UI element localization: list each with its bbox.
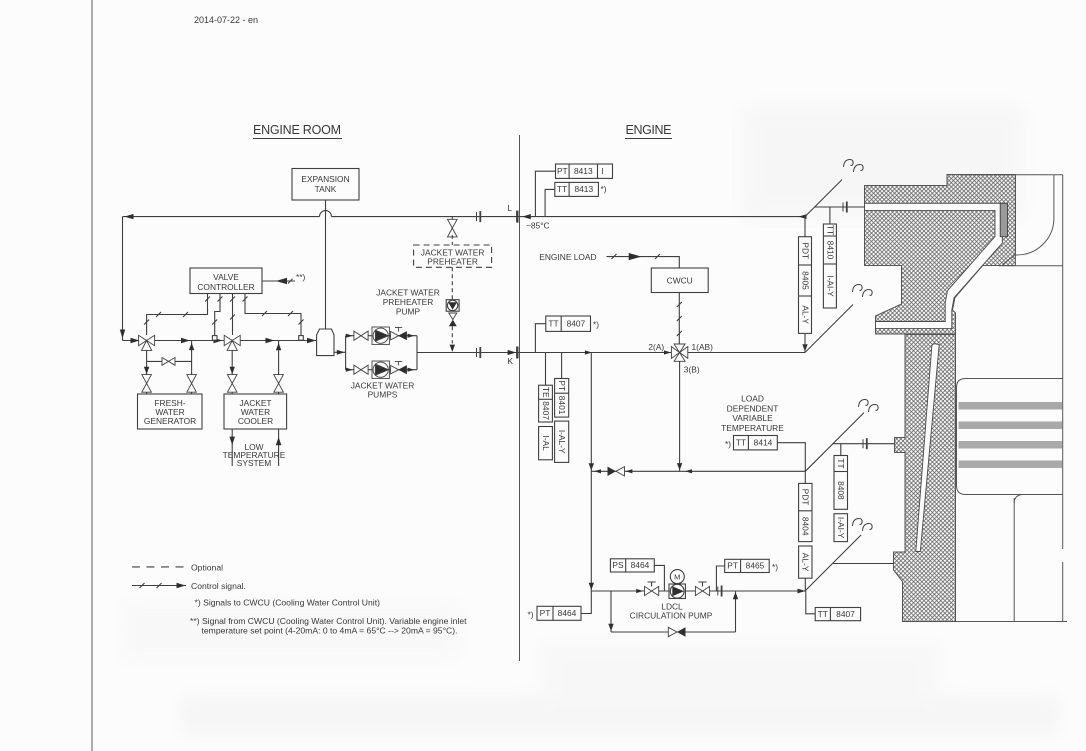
PT8413 instrument lead <box>535 171 555 216</box>
CWCU box <box>651 268 708 293</box>
fresh-water generator box <box>138 394 203 429</box>
liner cooling slot (white) <box>916 344 939 552</box>
faint scan smudges <box>120 105 1060 735</box>
svg-text:Control signal.: Control signal. <box>191 581 246 591</box>
svg-text:PUMP: PUMP <box>396 307 421 317</box>
svg-text:8405: 8405 <box>800 271 810 290</box>
hose squiggle D2 <box>853 284 863 292</box>
svg-text:CWCU: CWCU <box>667 276 693 286</box>
liner outlet pipe <box>833 443 895 445</box>
flow arrow L at wall (pointing left) <box>522 214 531 219</box>
engine cylinder liner column (hatched) <box>894 335 956 622</box>
hose squiggle D1 <box>844 159 854 167</box>
svg-text:PUMPS: PUMPS <box>368 390 398 400</box>
dashed drop preheater to pump <box>451 267 453 299</box>
svg-text:AL-Y: AL-Y <box>801 553 811 572</box>
TT 8408 vertical box <box>834 456 848 542</box>
preheater branch valve on L line <box>451 217 453 222</box>
jw cooler outlet valve <box>274 375 284 393</box>
PT8401 lead <box>561 353 563 379</box>
bypass check valve (white/black) <box>668 627 677 636</box>
svg-text:L: L <box>507 203 512 213</box>
svg-text:TEMPERATURE: TEMPERATURE <box>721 423 784 433</box>
valve controller box <box>190 268 262 294</box>
low temperature system supply line <box>231 429 233 466</box>
TT 8410 vertical box <box>823 224 836 308</box>
svg-text:GENERATOR: GENERATOR <box>144 416 196 426</box>
jw cooler inlet drop <box>231 350 233 394</box>
arrow on riser above tee <box>589 463 594 470</box>
svg-text:*): *) <box>772 562 778 572</box>
svg-text:8404: 8404 <box>801 517 811 536</box>
svg-text:VALVE: VALVE <box>213 272 239 282</box>
cylinder bore fillet arc <box>1015 218 1054 255</box>
preheater pump check valve (down) <box>449 313 457 320</box>
TT 8407 box (engine inlet) <box>546 316 591 331</box>
engine cylinder head block (hatched) <box>865 175 1016 335</box>
motor M <box>670 570 684 584</box>
svg-text:DEPENDENT: DEPENDENT <box>727 403 779 413</box>
flow arrow suction header 2 <box>181 338 190 343</box>
svg-text:8407: 8407 <box>567 319 586 329</box>
svg-text:PDT: PDT <box>801 489 811 506</box>
branch 2 flow arrows <box>346 368 353 372</box>
PDT8405 bottom lead <box>804 333 806 352</box>
jw pump 1 <box>372 327 389 344</box>
svg-text:I-AI-Y: I-AI-Y <box>836 517 846 539</box>
piston ring belt slab (rounded) <box>957 379 1063 495</box>
channel elbow shaded insert <box>1000 203 1007 236</box>
PDT 8404 vertical box <box>799 483 812 578</box>
svg-text:*): *) <box>601 184 607 194</box>
flow arrow into deaeration vessel <box>307 338 316 343</box>
K line engine side continues <box>688 352 805 354</box>
PT 8413 box <box>556 164 613 178</box>
jw pump 1 check valve <box>391 328 407 340</box>
svg-text:SYSTEM: SYSTEM <box>237 458 271 468</box>
pump suction valve with T <box>645 586 659 595</box>
svg-text:*): *) <box>725 439 731 449</box>
pump bypass left riser <box>610 591 612 632</box>
svg-text:Optional: Optional <box>191 562 223 572</box>
hose diagonal D2 (K line to head inlet) <box>805 305 853 353</box>
PT8465 instrument lead <box>716 566 724 591</box>
engine outline right verticals <box>961 174 1063 176</box>
svg-text:1(AB): 1(AB) <box>692 342 714 352</box>
jacket water preheater dashed box <box>414 245 492 267</box>
legend optional dashed sample <box>132 566 185 568</box>
dashed drop to K line <box>451 326 453 343</box>
flow arrow into LDCL outlet junction <box>798 589 806 594</box>
expansion tank box <box>292 169 359 201</box>
svg-text:PT: PT <box>540 608 551 618</box>
mixing line check valve (black/white) <box>608 467 617 476</box>
svg-text:ENGINE ROOM: ENGINE ROOM <box>253 123 341 137</box>
control signal output line with arrow **) <box>262 279 295 284</box>
svg-text:I-AL-Y: I-AL-Y <box>557 430 567 454</box>
fw generator outlet valve <box>187 375 197 393</box>
svg-text:8464: 8464 <box>631 560 650 570</box>
svg-text:PT: PT <box>557 166 568 176</box>
flow arrow K before 3-way valve <box>664 350 671 354</box>
piston ring gray bar 4 <box>959 461 1063 469</box>
svg-text:PT: PT <box>727 561 738 571</box>
union on K line <box>477 347 481 358</box>
line jump over tank drop <box>320 211 332 217</box>
hose squiggle D4 <box>853 518 863 526</box>
hose squiggle D3 <box>859 399 869 407</box>
dashed drop to preheater <box>451 235 453 245</box>
svg-text:TT: TT <box>825 225 835 235</box>
PT 8465 box <box>725 559 770 572</box>
K feed pipe engine room side <box>417 352 805 354</box>
flow arrow left riser down <box>120 330 125 339</box>
low temperature system return line <box>278 429 280 466</box>
union on liner outlet pipe <box>863 438 867 449</box>
hose diagonal D4 (liner inlet) <box>805 535 861 591</box>
svg-text:PS: PS <box>612 560 624 570</box>
TT8407 bottom instrument lead <box>806 591 815 614</box>
arrow into K line <box>450 345 455 352</box>
fw generator inlet valve <box>142 375 152 393</box>
PT 8401 vertical box <box>555 379 569 463</box>
bulkhead mark L <box>516 211 518 223</box>
bypass globe valve <box>162 358 175 366</box>
svg-text:8413: 8413 <box>574 184 593 194</box>
union on head outlet pipe <box>843 202 847 213</box>
fw generator outlet up arrow <box>189 343 194 350</box>
LDCL feed riser (to circulation circuit) <box>590 353 592 592</box>
signal tap square D <box>299 336 304 341</box>
3B outlet drop <box>679 361 681 471</box>
svg-text:CIRCULATION PUMP: CIRCULATION PUMP <box>630 610 713 620</box>
engine room / engine separator wall line <box>519 135 521 661</box>
svg-text:PREHEATER: PREHEATER <box>383 297 434 307</box>
legend control signal sample <box>132 583 186 588</box>
3-way control valve (2A/1AB/3B) <box>671 344 687 361</box>
svg-text:ENGINE: ENGINE <box>626 123 672 137</box>
PT 8464 box <box>537 606 581 620</box>
PDT8404 top lead <box>804 471 806 483</box>
hose diagonal D1 (L line to head) <box>805 180 842 217</box>
flow arrow K at wall (pointing right) <box>508 350 517 355</box>
LDCL pump suction line <box>591 590 805 592</box>
svg-text:I-AL: I-AL <box>541 435 551 451</box>
svg-text:8407: 8407 <box>541 401 551 420</box>
pump suction header pipe <box>123 340 317 342</box>
piston ring gray bar 2 <box>959 422 1063 430</box>
arrow on PDT8405 bottom lead <box>802 344 807 351</box>
pump manifold right rail <box>416 336 418 370</box>
svg-text:TT: TT <box>548 319 558 329</box>
svg-text:TT: TT <box>836 458 846 468</box>
deaeration vessel <box>317 329 334 356</box>
svg-text:AL-Y: AL-Y <box>800 305 810 324</box>
svg-text:2014-07-22 - en: 2014-07-22 - en <box>194 15 258 25</box>
union on L line <box>477 211 481 222</box>
branch 1 flow arrows <box>346 334 353 338</box>
svg-text:TE: TE <box>541 387 551 398</box>
svg-text:8465: 8465 <box>746 561 765 571</box>
svg-text:VARIABLE: VARIABLE <box>732 413 773 423</box>
flow arrow suction header 4 <box>266 338 275 343</box>
freshwater generator inlet drop <box>146 350 148 394</box>
svg-text:8413: 8413 <box>574 166 593 176</box>
arrow on riser above pump line <box>589 583 594 590</box>
liner inlet pipe <box>833 563 894 565</box>
svg-text:8408: 8408 <box>836 481 846 500</box>
jw cooler inlet valve <box>227 375 237 393</box>
svg-text:8414: 8414 <box>754 438 773 448</box>
svg-text:8410: 8410 <box>825 241 835 260</box>
left riser pipe <box>122 217 124 341</box>
TT8413 instrument lead <box>545 189 555 216</box>
sheet border line <box>91 0 93 751</box>
TT8408 lead <box>840 444 842 456</box>
svg-text:K: K <box>507 356 513 366</box>
fw generator bypass line <box>147 341 192 395</box>
jw cooler outlet riser <box>278 341 280 395</box>
svg-text:*): *) <box>593 320 599 330</box>
expansion tank drop pipe <box>325 200 327 329</box>
svg-text:8464: 8464 <box>558 608 577 618</box>
pump discharge valve with T <box>695 586 709 595</box>
PDT8404 bottom lead <box>804 578 806 591</box>
piston ring gray bar 1 <box>959 402 1063 410</box>
signal drop B to pipe tap <box>212 294 222 336</box>
L return pipe (top main line) <box>123 216 806 218</box>
jw pump top branch pipe <box>346 335 417 337</box>
flow arrow suction header 3 <box>214 338 223 343</box>
svg-text:8401: 8401 <box>557 396 567 415</box>
TE 8407 vertical box <box>539 385 553 460</box>
svg-text:TT: TT <box>557 184 567 194</box>
jw pump 2 <box>372 361 389 378</box>
svg-text:8407: 8407 <box>836 609 855 619</box>
engine load signal line <box>607 254 680 268</box>
svg-text:3(B): 3(B) <box>684 365 700 375</box>
flow arrow L left end <box>125 214 134 219</box>
svg-text:TT: TT <box>818 609 828 619</box>
TT 8413 box <box>555 182 599 196</box>
svg-text:JACKET WATER: JACKET WATER <box>376 288 440 298</box>
svg-text:I-AI-Y: I-AI-Y <box>825 275 835 297</box>
svg-text:temperature set point (4-20mA:: temperature set point (4-20mA: 0 to 4mA … <box>202 625 458 635</box>
svg-text:M: M <box>674 573 680 582</box>
svg-text:EXPANSION: EXPANSION <box>301 174 349 184</box>
jw pump 1 suction valve <box>354 331 368 340</box>
svg-text:PT: PT <box>557 380 567 391</box>
head cooling water channel (white band) <box>865 203 1003 328</box>
PS8464 instrument lead <box>654 565 664 591</box>
pump bypass right riser <box>735 591 737 632</box>
TT8414 instrument lead <box>777 443 805 472</box>
jw pump 2 suction valve <box>354 365 368 374</box>
LDCL mixing line (3B tee to engine outlet tee) <box>591 470 805 472</box>
jw pump bottom branch pipe <box>346 369 417 371</box>
svg-text:PREHEATER: PREHEATER <box>427 257 478 267</box>
TT 8407 box (LDCL outlet) <box>815 608 860 621</box>
TE8407 lead <box>545 353 547 386</box>
svg-text:PDT: PDT <box>800 242 810 259</box>
engine lower frame lines <box>1013 498 1015 622</box>
svg-text:TANK: TANK <box>315 184 337 194</box>
jw preheater pump (down) <box>446 300 459 312</box>
PS 8464 box <box>610 559 654 572</box>
svg-text:~85°C: ~85°C <box>526 221 550 231</box>
union on pump discharge <box>718 586 722 597</box>
pump bypass line <box>611 631 736 633</box>
TT8410 lead <box>829 207 831 224</box>
svg-text:CONTROLLER: CONTROLLER <box>197 282 254 292</box>
vessel outlet pipe <box>334 351 346 353</box>
TT 8414 box <box>734 436 778 450</box>
TT8407 top instrument lead <box>535 324 545 353</box>
signal drop A to freshwater 3-way valve <box>144 294 210 336</box>
svg-text:*) Signals to CWCU (Cooling Wa: *) Signals to CWCU (Cooling Water Contro… <box>195 598 381 608</box>
3-way valve freshwater (left) <box>139 335 155 350</box>
flow arrow before suction valve <box>636 589 643 593</box>
3-way valve cooler (center) <box>224 335 240 350</box>
PDT 8405 vertical box <box>799 237 812 334</box>
flow arrow K before branch <box>585 350 592 354</box>
signal tap square B <box>212 336 217 341</box>
piston ring gray bar 3 <box>959 441 1063 449</box>
signal drop C to cooler 3-way valve <box>230 294 235 336</box>
svg-text:**): **) <box>296 272 306 282</box>
CWCU control signal to 3-way valve <box>677 293 682 345</box>
engine outlet junction L: arrow <box>799 214 807 219</box>
jacket water cooler box <box>224 394 287 429</box>
svg-text:ENGINE LOAD: ENGINE LOAD <box>539 252 596 262</box>
head outlet pipe <box>815 206 866 208</box>
bulkhead mark K <box>516 347 518 359</box>
LDCL circulation pump <box>669 584 685 599</box>
mixing line flow arrows (leftward) <box>594 469 601 473</box>
PDT8405 top lead <box>804 217 806 237</box>
PT8464 instrument lead <box>581 591 591 614</box>
svg-text:*): *) <box>527 610 533 620</box>
engine bottom edge <box>903 621 1068 623</box>
svg-text:I: I <box>601 166 603 176</box>
svg-text:COOLER: COOLER <box>238 416 273 426</box>
pump manifold left rail <box>345 336 347 370</box>
signal drop D to pipe tap <box>243 294 304 336</box>
flow arrow suction header 1 <box>131 338 140 343</box>
svg-text:LOAD: LOAD <box>741 394 764 404</box>
hose diagonal D3 (liner outlet) <box>805 413 864 472</box>
jw pump 2 check valve <box>391 362 407 374</box>
svg-text:TT: TT <box>736 438 746 448</box>
svg-text:2(A): 2(A) <box>648 342 664 352</box>
